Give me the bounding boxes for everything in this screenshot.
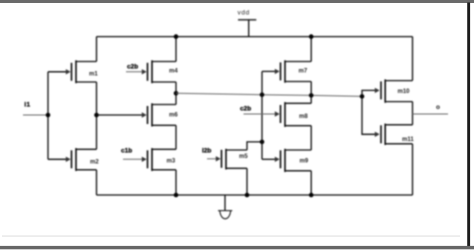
wire m2 source to rail [96,170,98,195]
svg-text:m6: m6 [169,113,178,119]
wire second stage bias net [176,93,362,96]
wire m11 gate jog [362,96,376,134]
transistor m4 [142,60,179,83]
node junction m4 rail [174,34,179,39]
wire m7/m9 gate bus [261,71,263,159]
wire m8 drain up [310,95,312,103]
wire m7 source down [310,82,312,96]
transistor m11 [375,124,415,145]
svg-text:i1: i1 [24,101,30,108]
wire m4 gate stub [126,71,143,73]
wire m11 source to rail [412,144,414,195]
wire output o [413,113,449,115]
ground symbol [218,195,232,219]
wire m1 gate [48,71,67,73]
transistor m7 [275,60,311,82]
svg-text:m4: m4 [169,68,178,74]
wire input gate bus [47,72,49,160]
wire m3 gate stub [123,158,143,160]
transistor m8 [275,102,311,127]
node junction bias/output gates [360,94,365,99]
node junction m5/bias [260,140,265,145]
vdd supply symbol [238,9,257,36]
node junction bias/m7-m8 [309,93,314,98]
node junction m3 rail [174,193,179,198]
node junction m4/m6 [174,91,179,96]
node i1 input wire [23,114,48,116]
wire m5 gate stub [207,158,217,160]
transistor m10 [375,79,413,102]
wire m7 gate [262,70,276,72]
svg-text:m2: m2 [90,159,99,165]
svg-text:m1: m1 [89,71,98,77]
svg-text:m9: m9 [300,158,309,164]
wire m2 gate [48,158,67,160]
wire m6-m3 [175,125,177,149]
transistor m2 [66,148,100,171]
node junction m5 rail [245,193,250,198]
svg-text:c2b: c2b [127,63,138,70]
transistor m1 [66,60,99,83]
svg-text:i2b: i2b [202,147,211,154]
svg-text:m5: m5 [239,154,248,160]
ground rail [97,194,413,196]
wire m5 drain jog [247,142,262,150]
wire m9 gate [262,158,276,160]
svg-text:c2b: c2b [240,105,251,112]
node junction m7 rail [309,34,314,39]
transistor m6 [142,103,179,126]
node junction m9 rail [309,193,314,198]
svg-text:m11: m11 [402,137,414,143]
node junction bias/m7gate [260,92,265,97]
node junction first stage out [94,113,99,118]
wire output node vertical [412,102,414,125]
wire m8 gate stub [244,113,276,115]
wire m4 drain to rail [175,37,177,62]
wire m7 drain to rail [310,37,312,62]
wire m4-m6 [175,82,177,105]
wire m3 source to rail [175,170,177,195]
wire m8-m9 [310,126,312,150]
wire m1-m2 drains [96,82,98,149]
svg-text:m10: m10 [398,89,411,95]
svg-text:o: o [436,104,440,111]
wire m10 drain to rail [412,37,414,81]
svg-text:m7: m7 [299,68,308,74]
svg-text:vdd: vdd [238,9,250,16]
transistor m9 [275,149,311,172]
wire m5 source to rail [246,168,248,195]
svg-text:m8: m8 [299,114,308,120]
wire m10 gate jog [362,90,376,96]
wire m1 drain to rail [96,37,98,62]
wire m6 gate feed [97,114,143,116]
wire m9 source to rail [310,171,312,195]
svg-text:c1b: c1b [121,147,132,154]
transistor m3 [142,148,176,171]
vdd power rail [97,36,413,38]
transistor m5 [216,149,249,170]
svg-text:m3: m3 [167,158,176,164]
node junction i1/gates [46,113,51,118]
